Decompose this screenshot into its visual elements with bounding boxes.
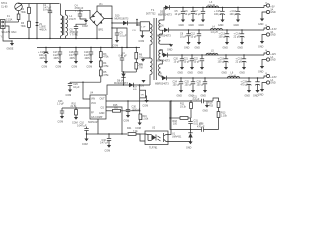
connector +3.3V output	[264, 25, 277, 34]
svg-text:R41: R41	[127, 127, 132, 130]
svg-text:1.5mH: 1.5mH	[69, 18, 76, 21]
ground GND	[245, 90, 252, 98]
svg-text:GND: GND	[270, 11, 276, 14]
inductor L3	[207, 1, 219, 8]
ground COM below C10	[82, 134, 89, 146]
capacitor C30	[126, 100, 141, 115]
svg-text:1.0 µH: 1.0 µH	[208, 4, 215, 7]
svg-text:0.47 µF: 0.47 µF	[119, 55, 128, 58]
resistor R4 startup	[99, 58, 109, 68]
resistor R3 startup	[99, 47, 109, 59]
ground COM below C16	[42, 61, 49, 69]
ground GND return	[167, 44, 173, 51]
svg-text:GND: GND	[270, 59, 276, 62]
svg-text:7.0k: 7.0k	[133, 130, 138, 133]
capacitor C24	[173, 77, 184, 90]
resistor R18	[173, 117, 191, 126]
svg-text:19.1k: 19.1k	[180, 106, 187, 109]
ground COM below C26	[66, 90, 73, 98]
svg-text:21.5k: 21.5k	[71, 105, 78, 108]
connector GND output	[258, 33, 276, 48]
diode D5	[158, 5, 172, 16]
IC U4 controller	[88, 92, 106, 125]
ground COM below C19	[87, 61, 94, 69]
T1 secondary winding 2	[159, 34, 161, 44]
resistor R13	[217, 108, 228, 130]
diode D7	[156, 49, 170, 62]
connector +1.8V output	[264, 73, 277, 82]
T1 secondary winding 1	[159, 20, 161, 30]
capacitor C17	[53, 47, 62, 61]
capacitor C14	[234, 29, 245, 42]
svg-text:56T7732: 56T7732	[146, 13, 156, 16]
capacitor C18 bulk	[69, 47, 78, 61]
svg-text:GND: GND	[240, 72, 246, 75]
snubber branch wire	[112, 28, 127, 48]
svg-text:CS: CS	[101, 107, 105, 110]
resistor R5 startup	[99, 67, 109, 82]
svg-text:440CA: 440CA	[39, 28, 47, 31]
svg-text:10 µF: 10 µF	[185, 13, 192, 16]
wire opto LED cathode	[136, 134, 145, 141]
wire plug neutral rail	[5, 26, 9, 39]
resistor R3	[21, 14, 31, 39]
capacitor C13	[219, 29, 230, 42]
ground GNDE	[7, 40, 15, 50]
resistor R10	[71, 102, 78, 117]
svg-text:GND: GND	[258, 23, 264, 26]
ground GND	[178, 67, 185, 75]
svg-text:MBRS340T3: MBRS340T3	[157, 35, 171, 38]
resistor R15	[106, 104, 140, 112]
capacitor C1 X-type	[43, 4, 52, 39]
DC bus wire	[37, 47, 140, 49]
svg-text:COM: COM	[82, 143, 88, 146]
svg-text:Y TYPE: Y TYPE	[75, 10, 84, 13]
capacitor C31	[188, 118, 202, 130]
ground GND	[177, 90, 184, 98]
wire tap to rail C	[161, 50, 164, 55]
capacitor C4 clamp	[119, 47, 128, 72]
ground COM below C11	[139, 35, 145, 43]
capacitor C9b	[191, 29, 202, 42]
ground GND	[218, 20, 225, 28]
svg-text:GS COMP: GS COMP	[91, 116, 103, 119]
svg-text:150 µF: 150 µF	[173, 84, 181, 87]
ground COM shared	[82, 20, 88, 28]
svg-text:1.0 µH: 1.0 µH	[229, 74, 236, 77]
svg-text:GND: GND	[179, 24, 185, 27]
svg-text:475k: 475k	[103, 56, 109, 59]
svg-text:1.0 µH: 1.0 µH	[208, 52, 215, 55]
ground GND	[223, 42, 230, 50]
varistor Z1	[35, 4, 47, 39]
svg-text:CL-80: CL-80	[1, 6, 8, 9]
wire U4 drain to transformer	[107, 85, 150, 95]
svg-text:1.10k: 1.10k	[142, 118, 149, 121]
wire choke to bridge	[66, 10, 91, 18]
ground COM near drain	[139, 80, 146, 88]
capacitor C32	[100, 133, 111, 145]
ground GND	[234, 20, 241, 28]
wire bridge to HV node	[104, 19, 112, 48]
ground GND	[198, 67, 205, 75]
svg-text:100 µF: 100 µF	[214, 13, 222, 16]
svg-text:475k: 475k	[103, 74, 109, 77]
capacitor C25	[185, 77, 196, 90]
capacitor C16 bulk	[38, 47, 48, 61]
T1 secondary winding 3	[159, 50, 161, 60]
capacitor C16	[230, 7, 241, 20]
svg-text:150 µF: 150 µF	[185, 84, 193, 87]
fuse F1	[6, 11, 20, 22]
svg-text:X TYPE: X TYPE	[43, 9, 52, 12]
svg-text:10 µF: 10 µF	[194, 61, 201, 64]
diode D8 clamp	[114, 71, 128, 85]
svg-text:GND: GND	[189, 24, 195, 27]
ground GND	[199, 20, 206, 28]
capacitor C20	[174, 54, 185, 67]
svg-text:GND: GND	[270, 82, 276, 85]
svg-text:GND: GND	[201, 95, 207, 98]
ground COM below C30	[124, 115, 131, 123]
wire rail D	[167, 77, 265, 79]
svg-text:COM: COM	[58, 121, 64, 124]
svg-text:GND: GND	[188, 72, 194, 75]
capacitor C21	[184, 54, 195, 67]
common-mode choke L1	[61, 4, 76, 39]
capacitor C5	[175, 7, 186, 20]
wire opto emitter to TL431	[168, 141, 191, 143]
svg-text:150 µF: 150 µF	[197, 84, 205, 87]
neutral rail	[9, 38, 112, 40]
svg-text:OUT: OUT	[100, 98, 106, 101]
svg-text:GND: GND	[245, 95, 251, 98]
ground COM below R10	[72, 117, 78, 125]
ground COM below C23	[58, 116, 65, 124]
svg-text:COM: COM	[87, 66, 93, 69]
svg-text:TLP781: TLP781	[149, 147, 158, 150]
ground GND	[222, 67, 229, 75]
svg-text:10 µF: 10 µF	[175, 13, 182, 16]
capacitor C23	[57, 100, 90, 116]
svg-text:10 µF: 10 µF	[191, 36, 198, 39]
svg-text:UMV431: UMV431	[172, 136, 182, 139]
connector GND output	[258, 10, 276, 25]
wire opto LED anode	[145, 133, 148, 136]
ground COM below R16	[135, 123, 142, 131]
ground GND	[189, 90, 196, 98]
thermistor RT1	[1, 2, 22, 11]
ground GND below U1	[186, 141, 193, 150]
svg-text:400V: 400V	[40, 57, 46, 60]
svg-text:COM: COM	[66, 94, 72, 97]
svg-text:GND: GND	[178, 72, 184, 75]
diode D10	[115, 15, 129, 26]
wire rail A	[170, 7, 265, 9]
svg-text:100 µF: 100 µF	[219, 36, 227, 39]
capacitor C29	[255, 77, 260, 90]
svg-text:GND: GND	[270, 34, 276, 37]
svg-text:Y TYPE: Y TYPE	[70, 34, 79, 37]
svg-text:1 nF: 1 nF	[141, 26, 146, 28]
capacitor C10	[77, 122, 98, 135]
inductor L5	[206, 50, 218, 56]
regulator VR1 column	[133, 84, 146, 114]
wire clamp node	[122, 71, 136, 73]
bridge rectifier BR1	[90, 11, 104, 31]
ground GND	[179, 20, 186, 28]
ground GND	[253, 90, 260, 98]
svg-text:400V: 400V	[70, 57, 76, 60]
svg-text:COM: COM	[124, 120, 130, 123]
svg-text:MBRS340T3: MBRS340T3	[158, 14, 172, 17]
wire tap return	[161, 43, 172, 45]
wire opto collector up to FB node	[168, 101, 171, 135]
svg-text:MURS160T3: MURS160T3	[115, 17, 129, 20]
ground COM below C32	[105, 145, 112, 153]
svg-text:0.047 µF: 0.047 µF	[77, 125, 87, 128]
capacitor C26	[68, 82, 80, 89]
svg-text:GND: GND	[167, 49, 173, 52]
T1 aux winding	[150, 58, 152, 85]
svg-text:GND: GND	[238, 47, 244, 50]
svg-text:GND: GND	[203, 110, 209, 113]
wire drain	[149, 46, 151, 58]
svg-text:COM: COM	[56, 66, 62, 69]
svg-text:T1: T1	[151, 8, 155, 12]
svg-text:COM: COM	[139, 40, 145, 43]
svg-text:453: 453	[209, 105, 214, 108]
capacitor C22	[194, 54, 205, 67]
svg-text:GNDE: GNDE	[7, 48, 14, 51]
wire HV to snubber/primary	[112, 22, 150, 24]
svg-text:730k: 730k	[21, 11, 27, 14]
svg-text:VIN: VIN	[91, 98, 95, 101]
wire fb left down to bottom rail	[170, 118, 219, 130]
optocoupler U2	[145, 127, 168, 150]
svg-text:730k: 730k	[21, 25, 27, 28]
svg-text:MURA160T3: MURA160T3	[114, 82, 128, 85]
svg-text:MBRS340T3: MBRS340T3	[156, 60, 170, 63]
resistor R2	[21, 4, 31, 15]
svg-text:400V: 400V	[85, 57, 91, 60]
diode D8	[155, 72, 169, 85]
svg-text:BR1: BR1	[99, 28, 104, 31]
svg-text:GND: GND	[222, 72, 228, 75]
snubber network C11	[132, 19, 150, 36]
connector GND output	[258, 81, 276, 96]
svg-text:GND: GND	[199, 24, 205, 27]
wire fb left vertical	[169, 101, 171, 118]
svg-text:MBRS340T3: MBRS340T3	[155, 83, 169, 86]
wire earth from plug	[3, 29, 12, 42]
svg-text:100 µF: 100 µF	[218, 61, 226, 64]
svg-text:GND: GND	[218, 24, 224, 27]
svg-text:NCP1027: NCP1027	[88, 121, 99, 124]
wire tap to rail B	[161, 29, 165, 31]
capacitor C19 out	[236, 54, 247, 67]
svg-text:10 µF: 10 µF	[195, 13, 202, 16]
ground COM right of VR1	[143, 96, 149, 108]
svg-text:COM: COM	[42, 66, 48, 69]
capacitor C19	[84, 47, 93, 61]
AC plug J1	[1, 20, 6, 29]
svg-text:GND: GND	[234, 24, 240, 27]
wire startup to VIN	[70, 81, 101, 83]
resistor R6 clamp	[135, 47, 143, 60]
capacitor C7	[195, 7, 206, 20]
svg-text:470 µF: 470 µF	[241, 84, 249, 87]
node Vin+	[97, 6, 112, 19]
svg-text:GND: GND	[258, 70, 264, 73]
svg-text:GND: GND	[258, 45, 264, 48]
svg-text:470 pF: 470 pF	[197, 126, 205, 129]
svg-text:COM: COM	[113, 45, 119, 48]
svg-text:22 µF: 22 µF	[234, 36, 241, 39]
ground COM below C18	[72, 61, 79, 69]
capacitor C38	[197, 123, 205, 132]
ground GND	[188, 67, 195, 75]
inductor L6	[228, 71, 240, 78]
svg-text:GND: GND	[223, 47, 229, 50]
inductor L4	[211, 25, 223, 34]
svg-text:2.2 µF: 2.2 µF	[193, 98, 200, 101]
wire U4 CS to comp node	[106, 107, 122, 134]
svg-text:1.0 µH: 1.0 µH	[211, 31, 218, 34]
ground GND	[189, 20, 196, 28]
capacitor C8	[180, 29, 191, 42]
wire U4 COMP down	[98, 119, 127, 134]
svg-text:100 µF: 100 µF	[230, 13, 238, 16]
capacitor C28	[241, 77, 252, 90]
wire rail C	[168, 54, 265, 56]
ground COM aux	[138, 58, 151, 67]
svg-text:10 µF: 10 µF	[174, 61, 181, 64]
svg-text:GND: GND	[195, 47, 201, 50]
svg-text:3.15A: 3.15A	[6, 19, 13, 22]
capacitor C5 Y-type	[70, 23, 87, 39]
transformer T1	[146, 8, 156, 80]
shunt regulator U1 TL431	[172, 129, 193, 142]
svg-text:COM: COM	[72, 66, 78, 69]
ground COM below C9	[113, 40, 120, 48]
svg-text:10 µF: 10 µF	[180, 36, 187, 39]
capacitor C26	[197, 77, 208, 90]
wire U4 FB line	[106, 100, 191, 102]
wire tap to rail D	[161, 76, 163, 78]
resistor R16	[139, 114, 149, 123]
svg-text:10 µF: 10 µF	[73, 86, 80, 89]
wire fb mid horizontal	[170, 117, 180, 119]
resistor R41	[127, 127, 145, 135]
svg-text:GND: GND	[99, 112, 105, 115]
ground GND	[195, 42, 202, 50]
wire rail B	[169, 29, 265, 31]
connector GND output	[258, 58, 276, 73]
svg-text:22 µF: 22 µF	[236, 61, 243, 64]
ground GND	[240, 67, 247, 75]
ground GND at C21	[203, 101, 210, 113]
svg-text:VR: VR	[141, 94, 144, 96]
svg-text:1.10k: 1.10k	[221, 115, 228, 118]
connector +12V output	[264, 50, 276, 59]
resistor R19	[208, 98, 220, 108]
svg-text:10 µF: 10 µF	[184, 61, 191, 64]
top AC rail	[19, 2, 60, 5]
resistor R11	[180, 100, 192, 118]
svg-text:1.0 µF: 1.0 µF	[120, 35, 127, 38]
svg-text:400V: 400V	[54, 57, 60, 60]
wire tap to rail A	[161, 8, 166, 21]
capacitor C15	[214, 7, 225, 20]
svg-text:1.0 µF: 1.0 µF	[57, 103, 64, 106]
svg-text:COM: COM	[143, 105, 149, 108]
capacitor C4 Y-type	[75, 5, 87, 21]
svg-text:100: 100	[173, 123, 178, 126]
svg-text:COM: COM	[82, 25, 88, 28]
node neutral junctions	[28, 38, 29, 39]
capacitor C6	[185, 7, 196, 20]
T1 primary winding	[150, 23, 152, 46]
svg-text:GND: GND	[198, 72, 204, 75]
svg-text:COM: COM	[105, 150, 111, 153]
svg-text:475k: 475k	[103, 65, 109, 68]
diode D3 VCC	[129, 83, 134, 87]
ground COM below C17	[56, 61, 63, 69]
svg-text:0.47 µF: 0.47 µF	[100, 142, 109, 145]
svg-text:GND: GND	[186, 147, 192, 150]
svg-text:VCC: VCC	[91, 102, 96, 105]
svg-text:COM: COM	[138, 64, 144, 67]
svg-text:GND: GND	[258, 93, 264, 96]
resistor R7 clamp	[135, 59, 143, 72]
capacitor C21 comp	[191, 96, 213, 104]
capacitor C18 out	[218, 54, 229, 67]
capacitor C9	[115, 28, 127, 40]
svg-text:GND: GND	[177, 95, 183, 98]
diode D6	[157, 25, 171, 38]
wire neutral to bridge	[96, 26, 98, 39]
ground GND	[184, 42, 191, 50]
ground GND	[201, 90, 208, 98]
wire plug line to fuse	[5, 21, 19, 23]
connector +5V output	[264, 2, 275, 11]
ground GND	[238, 42, 245, 50]
svg-text:GND: GND	[184, 47, 190, 50]
T1 secondary winding 4	[159, 64, 161, 76]
